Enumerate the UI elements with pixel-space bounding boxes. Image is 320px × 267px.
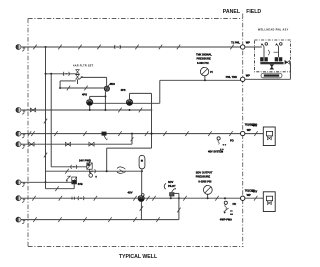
svg-text:SDV OUTPUT: SDV OUTPUT	[196, 171, 213, 175]
svg-text:PILOT: PILOT	[168, 184, 176, 188]
svg-text:4HY: 4HY	[252, 189, 257, 193]
svg-text:PNL TNK: PNL TNK	[226, 75, 237, 79]
svg-text:PANEL: PANEL	[223, 9, 241, 15]
svg-text:PD: PD	[230, 138, 234, 142]
svg-text:PRESSURE: PRESSURE	[196, 174, 211, 178]
svg-text:TYPICAL WELL: TYPICAL WELL	[119, 254, 158, 260]
svg-text:4HY: 4HY	[252, 123, 257, 127]
svg-text:WELLHEAD PNL ASY: WELLHEAD PNL ASY	[258, 28, 289, 31]
svg-text:4SV: 4SV	[128, 191, 133, 195]
svg-text:0-1500 PSI: 0-1500 PSI	[198, 179, 211, 183]
svg-text:WP: WP	[247, 128, 251, 132]
svg-text:PRESSURE: PRESSURE	[197, 57, 212, 61]
svg-text:TNK SIGNAL: TNK SIGNAL	[196, 52, 212, 56]
svg-text:WP: WP	[246, 41, 250, 45]
svg-text:4BV SYSTEM: 4BV SYSTEM	[208, 150, 223, 153]
svg-text:4VB: 4VB	[78, 182, 83, 186]
svg-text:4SO: 4SO	[110, 82, 115, 86]
svg-text:FIELD: FIELD	[246, 9, 261, 15]
svg-text:WP: WP	[246, 74, 250, 78]
svg-text:PD: PD	[233, 202, 237, 206]
svg-text:4PS: 4PS	[121, 88, 126, 92]
svg-text:WP: WP	[247, 193, 251, 197]
svg-text:4WP-PMA: 4WP-PMA	[220, 217, 232, 221]
svg-text:4AR FLTR SET: 4AR FLTR SET	[73, 64, 94, 67]
svg-text:SDV: SDV	[168, 180, 174, 184]
svg-text:PI: PI	[210, 71, 213, 74]
svg-text:4PS: 4PS	[82, 92, 87, 96]
svg-text:24V PWR: 24V PWR	[79, 158, 91, 162]
svg-text:T1 PNL: T1 PNL	[231, 41, 240, 45]
svg-text:0-300 PSI: 0-300 PSI	[197, 61, 209, 65]
